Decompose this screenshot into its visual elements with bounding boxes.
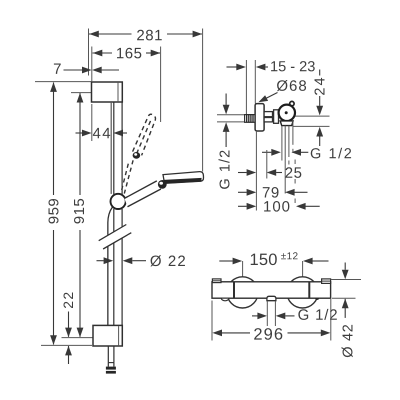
dim 15-23 wall line	[245, 60, 247, 114]
dim 100	[238, 205, 247, 207]
G 1/2 rotated dim at nipple	[225, 94, 227, 105]
svg-text:Ø 42: Ø 42	[340, 323, 356, 357]
threaded nipple through wall	[245, 115, 256, 123]
hose below bracket with end nut	[107, 346, 109, 363]
wall bar bottom bracket	[93, 325, 122, 346]
hand shower spray face (dark band)	[164, 178, 202, 184]
bracket left edge extension up	[91, 47, 93, 83]
svg-text:22: 22	[60, 291, 76, 309]
dim G1/2 outlet	[252, 315, 258, 317]
dim 25	[238, 172, 247, 174]
hanging hand shower lines below holder	[281, 126, 283, 161]
dashed shower handle line	[294, 160, 296, 211]
dim diameter 42	[344, 263, 346, 270]
holder nub	[290, 101, 294, 105]
right wall tab	[322, 279, 331, 284]
svg-text:150: 150	[250, 251, 278, 269]
dim 165	[93, 52, 113, 54]
dim 296	[212, 330, 222, 337]
bracket left edge extension down to 44 row	[91, 104, 93, 141]
svg-text:296: 296	[253, 326, 284, 344]
hand shower head (solid position)	[163, 172, 204, 184]
dim diameter 22	[97, 260, 104, 262]
dim 25 extension	[266, 150, 268, 179]
hand shower elbow joint	[158, 180, 167, 189]
dim 15-23	[227, 66, 237, 68]
left wall tab	[212, 279, 221, 283]
bracket centre reference line	[62, 337, 94, 339]
wall bar top reference line	[35, 81, 92, 83]
bar bottom reference line	[41, 344, 92, 346]
svg-text:959: 959	[46, 198, 63, 225]
mixer body bar	[212, 282, 331, 298]
dim 915 top reference line	[71, 92, 92, 94]
24 reference lines	[295, 115, 329, 117]
rail break symbol	[99, 225, 127, 241]
dim 22 arrows	[68, 312, 70, 337]
wall bar rail tube	[110, 102, 112, 194]
dim 281	[89, 33, 132, 35]
holder clamp	[274, 110, 279, 124]
svg-text:G 1/2: G 1/2	[218, 149, 234, 190]
hand shower handle (solid position)	[124, 181, 160, 207]
dim 15-23 plate face line	[254, 60, 256, 104]
left union seam	[233, 282, 235, 298]
dim 296 extension lines	[211, 301, 213, 341]
mixer knob left	[227, 277, 258, 308]
dim 281 extension line left	[88, 29, 90, 76]
holder ring	[279, 105, 295, 121]
dim 281 extension line right (through shower head)	[202, 29, 204, 172]
dim G1/2 holder row	[262, 151, 271, 153]
wall bar top bracket	[92, 82, 123, 102]
holder lower cone	[280, 121, 293, 126]
svg-text:165: 165	[116, 45, 143, 62]
hand shower slider ball on rail	[111, 194, 126, 209]
dim 165 extension line right	[160, 47, 162, 123]
under-body bumps	[221, 298, 229, 301]
centre outlet nub	[267, 296, 276, 300]
shower hose from handle	[108, 207, 112, 235]
dim 959 vertical	[50, 82, 57, 92]
svg-text:44: 44	[93, 125, 113, 142]
dim 79	[238, 191, 247, 193]
svg-text:100: 100	[263, 198, 291, 215]
svg-text:Ø 22: Ø 22	[150, 253, 187, 270]
connector blocks	[264, 112, 272, 117]
dim 44	[76, 132, 83, 134]
outlet extension lines	[266, 301, 268, 326]
dim 915 vertical	[77, 93, 84, 103]
plate front extension line down	[255, 131, 257, 211]
svg-text:25: 25	[285, 165, 303, 182]
svg-text:24: 24	[313, 75, 329, 95]
nipple reference lines	[217, 114, 245, 116]
mixer knob right	[287, 277, 318, 308]
dim 24 rotated text and arrows	[319, 70, 321, 76]
upright shower joint	[133, 152, 141, 159]
svg-text:±12: ±12	[281, 251, 299, 262]
svg-text:Ø68: Ø68	[276, 78, 307, 95]
svg-text:G 1/2: G 1/2	[298, 307, 339, 324]
svg-text:7: 7	[53, 61, 62, 78]
dashed handle lines to slider	[121, 164, 128, 192]
hand shower dashed upright position head	[133, 114, 156, 155]
svg-text:281: 281	[136, 27, 163, 44]
right union seam	[308, 282, 310, 298]
svg-text:G 1/2: G 1/2	[310, 146, 353, 162]
wall plate escutcheon	[255, 104, 264, 131]
svg-text:15 - 23: 15 - 23	[270, 59, 315, 75]
dim 150 +-12	[219, 260, 233, 262]
150 extension lines to knob centres	[242, 261, 244, 277]
svg-text:915: 915	[71, 198, 88, 225]
